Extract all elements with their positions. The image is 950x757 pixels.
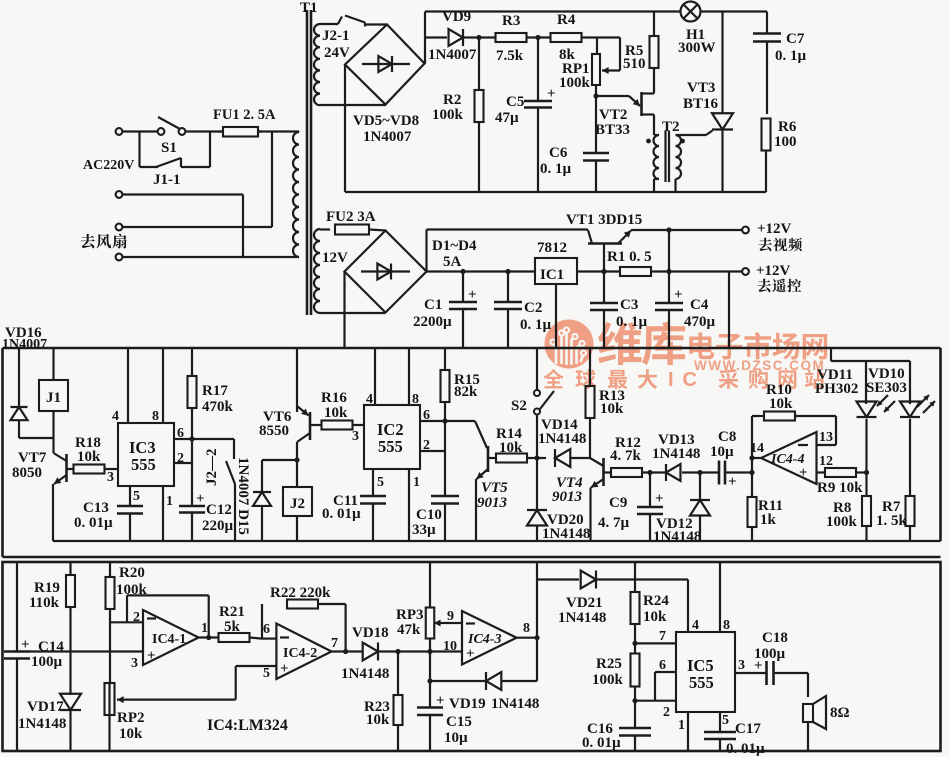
label C15 — [444, 714, 472, 746]
svg-text:VD21: VD21 — [566, 595, 603, 611]
svg-text:VT3: VT3 — [687, 80, 715, 96]
label VD13 — [652, 432, 700, 462]
svg-text:9: 9 — [447, 609, 454, 624]
label RP1 — [559, 61, 591, 91]
terminal fan feed 4 — [116, 254, 123, 261]
terminal AC220V live — [116, 128, 123, 135]
svg-text:5: 5 — [377, 475, 384, 490]
resistor R1 — [620, 267, 651, 276]
svg-text:110k: 110k — [29, 595, 60, 611]
diode VD12 — [690, 470, 710, 541]
svg-text:4: 4 — [366, 392, 373, 407]
label 8 ohm — [830, 705, 850, 721]
svg-text:R19: R19 — [34, 580, 60, 596]
watermark dzsc logo and text — [543, 320, 827, 392]
svg-text:R16: R16 — [321, 390, 347, 406]
label 7812 — [537, 240, 567, 256]
svg-text:100k: 100k — [826, 514, 858, 530]
svg-text:FU1 2. 5A: FU1 2. 5A — [213, 107, 276, 123]
svg-text:1: 1 — [678, 718, 685, 733]
pin6 wire of IC2 — [420, 408, 445, 423]
svg-text:6: 6 — [263, 622, 270, 637]
label VD9 — [442, 9, 471, 25]
svg-text:C7: C7 — [786, 31, 805, 47]
label C17 — [726, 721, 765, 757]
bridge rectifier D1~D4 — [345, 231, 427, 313]
resistor R10 — [752, 412, 836, 446]
label J2-2 vertical — [204, 449, 220, 487]
pin9 wire of IC4-3 — [447, 609, 462, 624]
wire R1 to +12V remote — [651, 230, 742, 274]
svg-text:24V: 24V — [324, 45, 350, 61]
svg-text:C9: C9 — [609, 495, 627, 511]
label 24V — [324, 45, 350, 61]
label R19 — [29, 580, 60, 611]
wire fan feed 3 — [122, 132, 272, 228]
pin8 of IC2 — [409, 348, 419, 407]
label VD19 — [449, 696, 539, 712]
svg-text:3: 3 — [738, 658, 745, 673]
svg-text:R1 0. 5: R1 0. 5 — [607, 249, 652, 265]
svg-text:10µ: 10µ — [444, 730, 468, 746]
wire S1 to fuse FU1 — [185, 130, 223, 132]
pin3 of IC3 — [107, 470, 114, 485]
regulator IC1 7812 — [535, 258, 577, 348]
wire R15 node to VT5 collector — [445, 421, 487, 448]
svg-text:C5: C5 — [506, 94, 524, 110]
svg-text:10: 10 — [443, 639, 457, 654]
svg-text:12V: 12V — [322, 250, 348, 266]
label VD11 — [815, 367, 858, 397]
svg-text:6: 6 — [659, 658, 666, 673]
pin4 of IC2 — [366, 348, 375, 407]
node wire of IC4-4 output — [749, 416, 761, 497]
svg-text:510: 510 — [623, 56, 646, 72]
svg-text:8: 8 — [723, 618, 730, 633]
fuse FU2 — [320, 225, 386, 235]
svg-text:VD9: VD9 — [442, 9, 471, 25]
capacitor C9 — [637, 470, 664, 541]
svg-text:9013: 9013 — [477, 495, 508, 511]
svg-text:10k: 10k — [600, 401, 624, 417]
top rail — [425, 10, 681, 12]
svg-text:10k: 10k — [366, 712, 390, 728]
label R11 — [758, 498, 783, 528]
label VD12 — [653, 516, 701, 545]
pin2 wire of IC5 — [632, 698, 676, 720]
transistor VT5 (9013) — [476, 446, 488, 541]
svg-text:4. 7k: 4. 7k — [610, 448, 642, 464]
svg-text:0. 01µ: 0. 01µ — [726, 741, 765, 757]
svg-text:5: 5 — [263, 666, 270, 681]
label C8 — [710, 429, 736, 460]
label R20 — [116, 565, 148, 598]
pin8 of IC5 — [720, 562, 730, 633]
svg-text:IC4-2: IC4-2 — [283, 646, 317, 661]
svg-text:2: 2 — [133, 610, 140, 625]
pin5 of IC4-2 — [263, 666, 270, 681]
svg-text:R3: R3 — [502, 13, 520, 29]
svg-text:8: 8 — [152, 409, 159, 424]
label R1 0.5 — [607, 249, 652, 265]
diode VD18 — [363, 643, 430, 661]
svg-text:+: + — [147, 648, 156, 664]
svg-text:2: 2 — [423, 438, 430, 453]
svg-text:5: 5 — [133, 489, 140, 504]
pin3 wire of IC4-1 — [30, 650, 143, 652]
svg-text:0. 01µ: 0. 01µ — [74, 515, 113, 531]
svg-text:100µ: 100µ — [31, 654, 63, 670]
label VT1 3DD15 — [566, 212, 642, 228]
svg-text:IC: IC — [668, 369, 706, 391]
svg-text:6: 6 — [177, 426, 184, 441]
resistor R3 — [496, 33, 527, 42]
svg-text:0. 1µ: 0. 1µ — [616, 314, 648, 330]
label C5 — [495, 94, 524, 126]
svg-text:5k: 5k — [224, 619, 241, 635]
wire fan feed 2 — [122, 195, 243, 258]
pin7 wire of IC5 — [632, 629, 676, 646]
label D15 1N4007 vertical — [235, 457, 251, 535]
svg-text:R2: R2 — [443, 92, 461, 108]
pin5 of IC3 with C13 — [130, 486, 140, 506]
svg-text:3: 3 — [131, 656, 138, 671]
svg-text:VD5~VD8: VD5~VD8 — [353, 113, 419, 129]
wire bridge2 plus up to VT1 collector rail — [427, 230, 589, 272]
relay contact J2-2 — [226, 439, 235, 541]
wire bridge plus up to top rail — [425, 12, 447, 64]
resistor R23 — [394, 652, 403, 752]
label J1-1 — [153, 172, 181, 188]
bottom rail of lamp section — [345, 191, 766, 193]
svg-text:VD17: VD17 — [27, 699, 64, 715]
transformer T1 220V primary winding — [293, 132, 299, 258]
capacitor C5 — [524, 38, 556, 193]
svg-text:R24: R24 — [643, 593, 669, 609]
svg-text:13: 13 — [819, 430, 833, 445]
label D1~D4 — [432, 238, 477, 270]
wire R3 to R4 — [527, 35, 552, 40]
svg-text:J1: J1 — [46, 390, 61, 406]
svg-text:IC1: IC1 — [540, 267, 564, 283]
label VT4 — [552, 475, 583, 505]
svg-text:T2: T2 — [662, 119, 680, 135]
capacitor C8 — [719, 461, 752, 491]
label RP3 — [396, 607, 424, 638]
svg-text:S2: S2 — [511, 398, 527, 414]
svg-text:100k: 100k — [432, 107, 464, 123]
potentiometer RP2 — [105, 683, 236, 751]
svg-text:VD19: VD19 — [449, 696, 486, 712]
label J2-1 — [322, 28, 350, 44]
capacitor C16 — [619, 728, 651, 751]
terminal fan feed 2 — [116, 191, 123, 198]
label H1 — [678, 27, 716, 56]
wire 24V winding bottom to bridge — [320, 104, 386, 106]
resistor R4 — [551, 33, 582, 42]
svg-text:0. 1µ: 0. 1µ — [775, 48, 807, 64]
svg-text:555: 555 — [131, 455, 156, 474]
svg-text:0. 1µ: 0. 1µ — [520, 317, 552, 333]
LED VD10 (SE303) — [900, 361, 935, 496]
wire IC1 out to R1 — [577, 269, 620, 274]
pin6 wire of IC5 — [655, 658, 676, 701]
relay contact J2-1 — [320, 16, 387, 27]
svg-text:C2: C2 — [524, 300, 542, 316]
svg-text:12: 12 — [819, 454, 833, 469]
svg-text:C3: C3 — [620, 297, 638, 313]
svg-text:C4: C4 — [690, 297, 709, 313]
pin1 of IC2 — [409, 469, 420, 541]
timer IC2 555 — [364, 405, 420, 469]
label R22 220k — [270, 585, 331, 601]
svg-text:VT1 3DD15: VT1 3DD15 — [566, 212, 642, 228]
svg-text:2: 2 — [663, 705, 670, 720]
label R17 — [202, 383, 234, 415]
svg-text:C10: C10 — [416, 507, 442, 523]
resistor R16 — [310, 421, 364, 430]
transistor VT6 (8550) — [297, 348, 310, 442]
svg-text:2200µ: 2200µ — [413, 314, 452, 330]
op-amp IC4-1 — [143, 610, 199, 665]
svg-text:47µ: 47µ — [495, 110, 519, 126]
svg-text:+: + — [21, 637, 30, 653]
label R8 — [826, 500, 858, 530]
pin7 of IC4-2 — [331, 636, 338, 651]
label VT2 — [595, 107, 630, 138]
svg-text:1. 5k: 1. 5k — [876, 513, 908, 529]
label +12V video — [757, 221, 802, 251]
svg-text:R4: R4 — [557, 12, 576, 28]
diode VD9 — [449, 29, 463, 46]
wire IC4-3 output node — [517, 562, 540, 681]
label R4 — [557, 12, 576, 63]
resistor R22 feedback — [262, 600, 348, 655]
transformer T1 24V secondary winding — [314, 24, 320, 105]
svg-text:5: 5 — [722, 713, 729, 728]
svg-text:3: 3 — [352, 429, 359, 444]
label C13 — [74, 500, 113, 531]
wire bridge minus down to bottom rail — [344, 65, 346, 193]
wire R6 to bottom rail — [765, 151, 767, 193]
pin3 of IC4-1 — [131, 656, 138, 671]
timer IC5 555 — [676, 632, 735, 712]
diode VD21 — [537, 571, 688, 589]
svg-text:300W: 300W — [678, 40, 716, 56]
terminal fan feed 3 — [116, 224, 123, 231]
svg-text:10k: 10k — [643, 609, 667, 625]
wire VT6 collector to D15 and J2 — [262, 442, 300, 487]
svg-text:1N4007: 1N4007 — [2, 337, 47, 352]
label IC4:LM324 — [207, 717, 288, 734]
svg-text:J1-1: J1-1 — [153, 172, 181, 188]
svg-text:J2-1: J2-1 — [322, 28, 350, 44]
label R9 10k — [817, 480, 863, 496]
svg-text:100k: 100k — [592, 672, 624, 688]
label VT6 — [259, 409, 292, 439]
resistor R24 — [631, 562, 640, 654]
op-amp IC4-2 — [276, 624, 331, 680]
wire fan feed 4 to T1 primary bottom — [122, 256, 294, 258]
svg-text:1N4148: 1N4148 — [491, 696, 539, 712]
capacitor C13 — [117, 506, 143, 541]
svg-text:7812: 7812 — [537, 240, 567, 256]
phasing dot T2 left — [646, 139, 651, 144]
lamp H1 — [681, 2, 701, 22]
pin14 of IC4-4 — [750, 441, 764, 456]
svg-text:+: + — [196, 491, 205, 507]
transformer T1 12V winding — [314, 229, 320, 313]
resistor R6 — [762, 119, 771, 151]
transistor VT4 (9013) — [590, 458, 604, 541]
svg-text:0. 01µ: 0. 01µ — [322, 506, 361, 522]
label R3 — [496, 13, 524, 64]
capacitor C7 — [753, 12, 781, 115]
label C11 — [322, 493, 361, 522]
svg-text:+12V: +12V — [757, 221, 792, 237]
svg-text:7: 7 — [331, 636, 338, 651]
potentiometer RP1 — [592, 38, 620, 86]
label VD14 — [538, 417, 586, 447]
transistor VT2 (BT33) — [629, 68, 654, 135]
pin5 wire of IC4-2 — [236, 666, 277, 700]
svg-text:8: 8 — [412, 392, 419, 407]
oscillator section frame — [3, 348, 941, 557]
capacitor C1 — [449, 269, 477, 348]
svg-text:1N4148: 1N4148 — [18, 716, 66, 732]
svg-text:D1~D4: D1~D4 — [432, 238, 477, 254]
pin1 of IC5 — [678, 712, 688, 751]
wire 12V winding bottom to bridge2 — [320, 312, 385, 314]
svg-text:R9 10k: R9 10k — [817, 480, 863, 496]
label 12V — [322, 250, 348, 266]
svg-text:C18: C18 — [762, 630, 788, 646]
svg-text:4. 7µ: 4. 7µ — [598, 515, 630, 531]
capacitor C3 — [590, 272, 618, 349]
svg-text:+: + — [728, 474, 737, 490]
bridge rectifier VD5~VD8 — [345, 25, 425, 105]
svg-text:C13: C13 — [83, 500, 109, 516]
svg-text:8: 8 — [523, 621, 530, 636]
resistor R19 — [66, 562, 75, 695]
svg-text:J2—2: J2—2 — [204, 449, 220, 487]
diode VD19 — [430, 672, 537, 690]
thyristor VT3 (BT16) — [712, 12, 733, 193]
pin3 of IC2 — [352, 429, 359, 444]
resistor R17 — [188, 348, 197, 439]
label +12V remote — [756, 263, 801, 292]
svg-text:10k: 10k — [499, 440, 523, 456]
svg-text:+: + — [674, 287, 683, 303]
label R16 — [321, 390, 348, 421]
label VD10 — [866, 366, 907, 396]
svg-text:R6: R6 — [778, 119, 797, 135]
label C6 — [540, 145, 572, 177]
capacitor C4 — [655, 272, 683, 349]
label T2 — [662, 119, 680, 135]
svg-text:+: + — [547, 86, 556, 102]
label 1N4007 of VD9 — [428, 47, 477, 63]
svg-text:4: 4 — [692, 618, 699, 633]
resistor R18 — [67, 465, 119, 474]
resistor R5 — [650, 12, 659, 69]
wire LED branch from top — [831, 348, 910, 361]
capacitor C11 — [360, 496, 386, 541]
label R10 — [766, 382, 793, 412]
label C1 — [413, 297, 452, 330]
svg-text:100µ: 100µ — [754, 646, 786, 662]
label 1N4007 of bridge — [363, 129, 412, 145]
capacitor C6 — [583, 93, 609, 192]
wire S2 to VD14 node — [534, 414, 539, 461]
wire FU1 to T1 primary — [258, 130, 299, 132]
svg-text:C17: C17 — [735, 721, 761, 737]
svg-text:0. 01µ: 0. 01µ — [582, 735, 621, 751]
pin1 of IC3 — [163, 486, 173, 541]
svg-text:10k: 10k — [119, 726, 143, 742]
svg-text:R17: R17 — [202, 383, 228, 399]
label R21 — [219, 604, 245, 635]
svg-text:6: 6 — [423, 408, 430, 423]
resistor R11 — [748, 497, 757, 541]
resistor R7 — [906, 496, 915, 541]
resistor R15 — [441, 348, 450, 424]
svg-text:1: 1 — [201, 621, 208, 636]
label R13 — [599, 388, 625, 417]
pin4 of IC3 — [112, 348, 128, 424]
diode VD20 — [527, 458, 547, 541]
transformer T1 core — [307, 10, 311, 315]
svg-text:C12: C12 — [206, 502, 232, 518]
label C4 — [684, 297, 716, 330]
label R15 — [454, 372, 480, 400]
pin12 of IC4-4 — [819, 454, 833, 469]
svg-text:VT5: VT5 — [481, 480, 508, 496]
relay contact J1-1 — [140, 132, 211, 168]
pin2 wire of IC4-1 — [110, 621, 143, 623]
diode VD14 — [537, 449, 590, 467]
wire pin10 of IC4-3 — [430, 639, 462, 654]
diode VD17 — [60, 694, 81, 751]
svg-text:4: 4 — [112, 409, 119, 424]
svg-text:100k: 100k — [559, 75, 591, 91]
pin6 wire of IC3 — [174, 426, 234, 442]
phasing dot T2 right — [680, 139, 685, 144]
svg-text:+: + — [436, 693, 445, 709]
label R14 — [496, 426, 523, 456]
transformer T2 core — [666, 131, 670, 182]
speaker 8ohm — [803, 673, 826, 751]
diode VD16 — [11, 348, 54, 438]
label C7 — [775, 31, 807, 64]
svg-text:VT7: VT7 — [18, 450, 47, 466]
svg-text:10k: 10k — [324, 405, 348, 421]
transistor VT1 (3DD15) — [588, 230, 631, 272]
svg-text:100: 100 — [774, 134, 797, 150]
label R5 — [623, 43, 646, 72]
svg-text:220µ: 220µ — [202, 518, 234, 534]
svg-text:SE303: SE303 — [866, 380, 907, 396]
svg-text:R21: R21 — [219, 604, 245, 620]
svg-text:R25: R25 — [596, 656, 622, 672]
transformer T2 secondary winding — [676, 135, 682, 192]
wire RP1 to VT2 emitter — [596, 85, 629, 96]
label VD5~VD8 — [353, 113, 419, 129]
label C10 — [412, 507, 442, 538]
svg-text:+12V: +12V — [756, 263, 791, 279]
svg-text:8550: 8550 — [259, 423, 289, 439]
label R12 — [610, 435, 642, 464]
